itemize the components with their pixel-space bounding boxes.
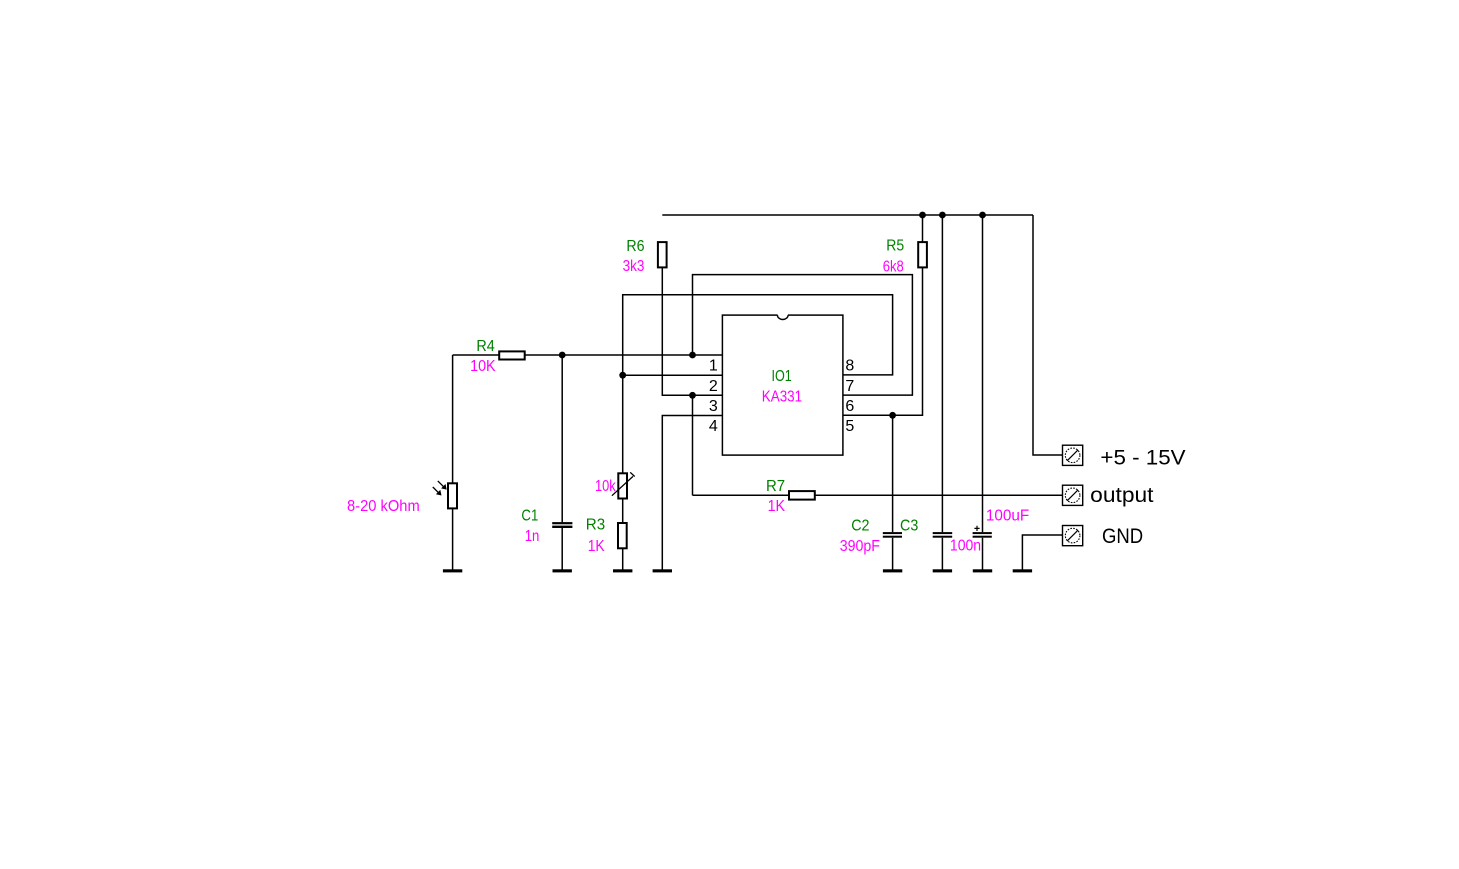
wire: pin 6 junction down to C2 <box>892 415 894 570</box>
svg-text:100n: 100n <box>950 538 981 555</box>
label C2 <box>851 518 869 535</box>
svg-text:6: 6 <box>845 398 854 415</box>
svg-text:R3: R3 <box>586 517 605 534</box>
svg-text:390pF: 390pF <box>840 538 880 555</box>
label output <box>1090 484 1153 507</box>
svg-text:10K: 10K <box>470 358 496 375</box>
svg-text:8-20 kOhm: 8-20 kOhm <box>347 498 420 515</box>
pin number 4 <box>709 418 718 435</box>
svg-text:C3: C3 <box>900 518 918 535</box>
capacitor C2 <box>883 532 902 538</box>
value 3k3 <box>623 258 645 275</box>
label R6 <box>626 238 644 255</box>
junction node pin3/R7 <box>689 392 696 399</box>
ground at IC pin 4 <box>653 569 672 572</box>
ground under R3 <box>613 569 632 572</box>
electrolytic capacitor 100uF <box>973 526 992 538</box>
svg-text:2: 2 <box>709 378 718 395</box>
svg-text:IO1: IO1 <box>772 368 792 385</box>
label R4 <box>476 338 494 355</box>
pin number 2 <box>709 378 718 395</box>
wire: LDR leads <box>452 355 454 570</box>
svg-text:6k8: 6k8 <box>883 258 904 275</box>
svg-text:R5: R5 <box>886 238 904 255</box>
terminal GND <box>1063 526 1083 546</box>
value 1n <box>525 528 540 545</box>
svg-text:10k: 10k <box>595 478 617 495</box>
svg-text:+5 - 15V: +5 - 15V <box>1100 445 1186 469</box>
ground under C3 <box>933 569 952 572</box>
ground at GND terminal <box>1013 569 1032 572</box>
terminal +5-15V <box>1063 445 1083 465</box>
value 1K (R3) <box>588 538 605 555</box>
value 390pF <box>840 538 880 555</box>
svg-text:7: 7 <box>845 378 854 395</box>
wire: R3 bottom to ground <box>622 548 624 570</box>
value 100n <box>950 538 981 555</box>
wire: pin 2 row <box>623 374 723 376</box>
photoresistor LDR 8-20 kOhm <box>433 481 457 509</box>
wire: pin 1 junction up and over to IC pin 7 <box>693 275 913 396</box>
pin number 6 <box>845 398 854 415</box>
terminal output <box>1063 485 1083 505</box>
svg-text:GND: GND <box>1102 525 1143 548</box>
wire: IC pin 6 to R5 bottom <box>843 268 923 415</box>
svg-text:C2: C2 <box>851 518 869 535</box>
wire: pot bottom to R3 top <box>622 499 624 524</box>
IC IO1 KA331 <box>722 315 843 455</box>
pin number 3 <box>709 398 718 415</box>
wire: C1 leads <box>561 355 563 570</box>
label R5 <box>886 238 904 255</box>
wire: pot top up and over to IC pin 8 <box>623 295 893 474</box>
wire: rail down to C3 <box>941 215 943 570</box>
pin number 7 <box>845 378 854 395</box>
resistor R4 <box>499 351 525 359</box>
resistor R6 <box>658 242 667 267</box>
svg-text:KA331: KA331 <box>762 388 802 405</box>
capacitor C1 <box>552 522 572 528</box>
wire: pin 1 row from R4 to IC pin 1 <box>453 354 723 356</box>
pin number 5 <box>845 418 854 435</box>
wire: R7 row to output terminal <box>693 494 1063 496</box>
wire: rail right end down to +5-15V terminal <box>1033 215 1063 455</box>
label GND <box>1102 525 1143 548</box>
svg-text:C1: C1 <box>521 508 538 525</box>
junction node pin6/C2 <box>889 412 896 419</box>
svg-text:output: output <box>1090 484 1153 507</box>
label 8-20 kOhm <box>347 498 420 515</box>
wire: +V top rail <box>662 214 1033 216</box>
value KA331 <box>762 388 802 405</box>
value 10K <box>470 358 496 375</box>
svg-text:R6: R6 <box>626 238 644 255</box>
svg-text:1K: 1K <box>588 538 605 555</box>
resistor R5 <box>918 242 927 267</box>
wire: GND terminal to ground <box>1022 535 1062 570</box>
svg-text:1K: 1K <box>768 498 786 515</box>
ground under C2 <box>883 569 902 572</box>
svg-text:R7: R7 <box>766 478 785 495</box>
label R3 <box>586 517 605 534</box>
label IO1 <box>772 368 792 385</box>
junction on rail at 100uF <box>979 212 986 219</box>
svg-text:5: 5 <box>845 418 854 435</box>
ground under LDR <box>443 569 462 572</box>
value 6k8 <box>883 258 904 275</box>
capacitor C3 <box>933 532 953 538</box>
svg-text:3k3: 3k3 <box>623 258 645 275</box>
wire: R5 top lead to rail <box>922 215 924 242</box>
label C1 <box>521 508 538 525</box>
ground under 100uF <box>973 569 992 572</box>
junction node pin2/pot <box>619 372 626 379</box>
wire: IC pin 4 to ground <box>662 416 722 570</box>
wire: R6 bottom to IC pin 3 <box>662 268 722 395</box>
potentiometer 10k <box>612 472 635 498</box>
pin number 8 <box>845 358 854 375</box>
resistor R3 <box>618 523 627 548</box>
svg-text:R4: R4 <box>476 338 494 355</box>
resistor R7 <box>789 491 815 500</box>
svg-text:3: 3 <box>709 398 718 415</box>
svg-text:8: 8 <box>845 358 854 375</box>
junction node pin1/pin7 link <box>689 352 696 359</box>
junction node pin1/C1 <box>559 352 566 359</box>
junction on rail at R5 <box>919 212 926 219</box>
svg-text:4: 4 <box>709 418 718 435</box>
svg-text:1n: 1n <box>525 528 540 545</box>
svg-text:1: 1 <box>709 358 718 375</box>
svg-text:100uF: 100uF <box>986 507 1030 524</box>
ground under C1 <box>553 569 572 572</box>
label +5 - 15V <box>1100 445 1186 469</box>
value 100uF <box>986 507 1030 524</box>
label R7 <box>766 478 785 495</box>
label C3 <box>900 518 918 535</box>
value 10k (pot) <box>595 478 617 495</box>
wire: pin 3 junction down to R7 row <box>692 395 694 495</box>
value 1K (R7) <box>768 498 786 515</box>
wire: rail down to 100uF capacitor <box>982 215 984 570</box>
junction on rail at C3 <box>939 212 946 219</box>
pin number 1 <box>709 358 718 375</box>
